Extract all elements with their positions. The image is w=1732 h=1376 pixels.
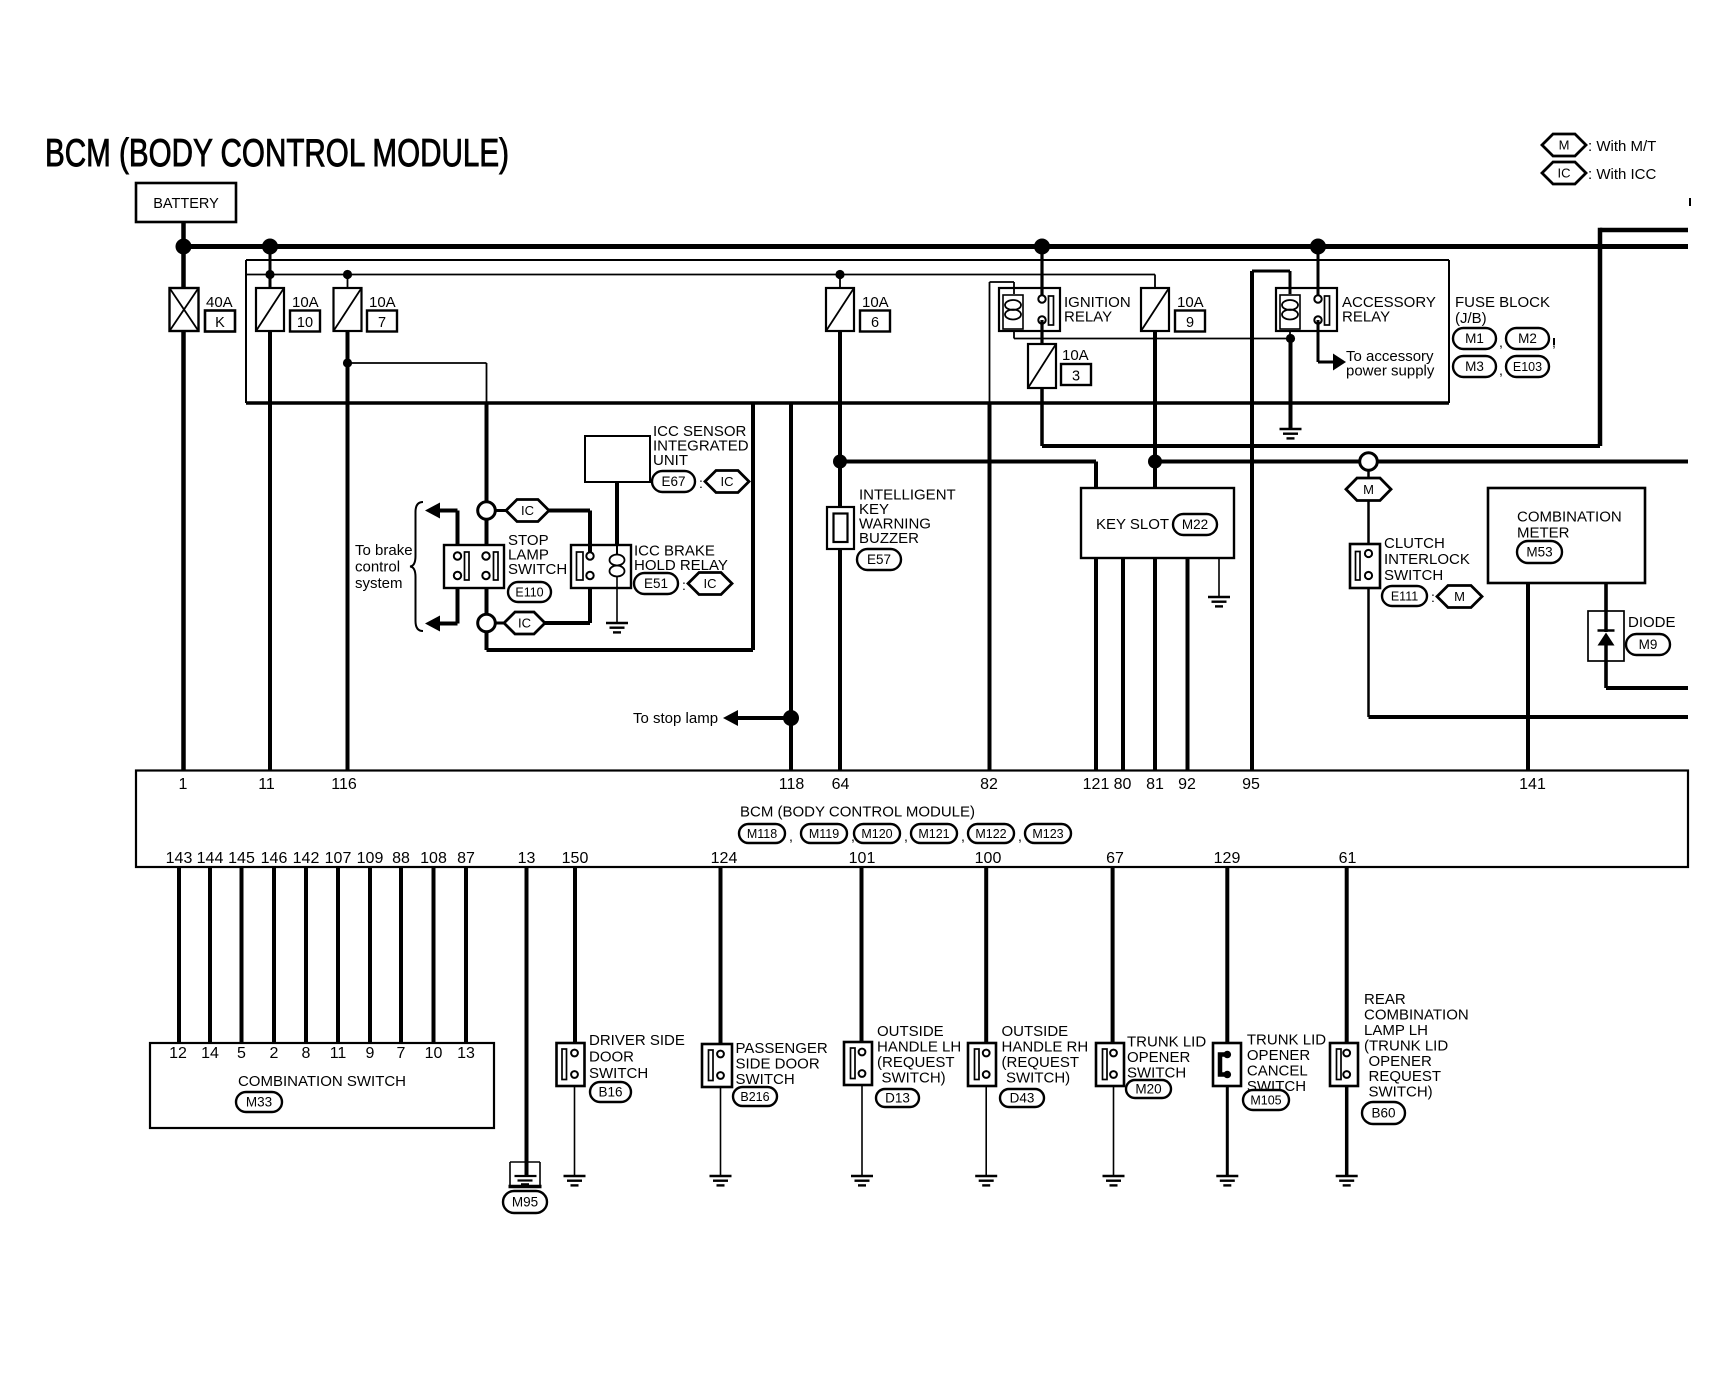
wire ignition relay to fuse 3 bbox=[1040, 320, 1043, 344]
M95 ground box bbox=[509, 1162, 542, 1187]
hexagon M clutch bbox=[1346, 478, 1391, 501]
label outside handle RH bbox=[1002, 1023, 1089, 1087]
wire 150 to door switch bbox=[573, 867, 577, 1043]
svg-text:(REQUEST: (REQUEST bbox=[877, 1054, 955, 1071]
wire 100 to handle RH bbox=[984, 867, 988, 1043]
svg-text:D13: D13 bbox=[885, 1091, 910, 1106]
connector E67 bbox=[652, 471, 695, 492]
wire M hex to clutch switch bbox=[1367, 501, 1370, 545]
svg-text:10A: 10A bbox=[292, 294, 319, 311]
fuse block J/B box bbox=[246, 260, 1449, 403]
svg-text:M1: M1 bbox=[1465, 331, 1484, 346]
svg-text:M9: M9 bbox=[1639, 637, 1658, 652]
svg-text:,: , bbox=[1552, 334, 1556, 350]
svg-text:40A: 40A bbox=[206, 294, 233, 311]
wire brake arrow upper bbox=[439, 511, 458, 546]
svg-text:1: 1 bbox=[179, 776, 188, 793]
node accessory-relay junction bbox=[1310, 239, 1326, 255]
svg-text:M: M bbox=[1559, 138, 1570, 153]
arrow to brake control upper bbox=[425, 503, 440, 519]
svg-text:M122: M122 bbox=[975, 827, 1006, 841]
node buzzer branch bbox=[833, 455, 847, 469]
svg-text:8: 8 bbox=[302, 1045, 311, 1062]
wire fusible link to BCM pin 1 bbox=[181, 331, 186, 770]
svg-text:BCM (BODY CONTROL MODULE): BCM (BODY CONTROL MODULE) bbox=[740, 804, 975, 821]
node open circle upper IC bbox=[478, 502, 496, 520]
svg-text:SWITCH: SWITCH bbox=[1384, 567, 1443, 584]
label 10A fuse3 bbox=[1062, 347, 1089, 364]
svg-text:141: 141 bbox=[1519, 776, 1546, 793]
legend text with ICC bbox=[1588, 166, 1657, 183]
wire circle to switch bbox=[485, 519, 489, 545]
svg-text:HANDLE RH: HANDLE RH bbox=[1002, 1039, 1089, 1056]
clutch switch bar bbox=[1356, 552, 1361, 581]
svg-text:TRUNK LID: TRUNK LID bbox=[1247, 1032, 1326, 1049]
node inner bus fuse7 bbox=[343, 270, 352, 279]
label 6 box bbox=[860, 311, 890, 332]
wire fuse 3 down bbox=[1040, 388, 1044, 446]
svg-text:IC: IC bbox=[721, 474, 734, 489]
svg-text:OUTSIDE: OUTSIDE bbox=[877, 1023, 944, 1040]
wire to stop lamp arrow bbox=[736, 716, 791, 720]
svg-text:SWITCH): SWITCH) bbox=[1369, 1084, 1433, 1101]
wire diode down bbox=[1604, 661, 1608, 688]
hexagon IC e67 bbox=[705, 471, 749, 493]
svg-text:61: 61 bbox=[1339, 850, 1357, 867]
svg-text::: : bbox=[699, 475, 703, 491]
connector M121 bbox=[911, 824, 957, 843]
key slot M22 box bbox=[1081, 488, 1234, 558]
wire fuse 6 to buzzer bbox=[838, 331, 842, 507]
svg-text:88: 88 bbox=[392, 850, 410, 867]
accessory relay coil box bbox=[1280, 295, 1300, 329]
legend hexagon IC (with ICC) bbox=[1542, 162, 1586, 184]
wire key slot ground bbox=[1218, 558, 1220, 597]
wire meter to diode bbox=[1604, 583, 1608, 611]
connector M122 bbox=[968, 824, 1014, 843]
svg-text:E51: E51 bbox=[644, 576, 668, 591]
svg-text:HANDLE LH: HANDLE LH bbox=[877, 1039, 961, 1056]
passenger side door switch B216 bbox=[702, 1044, 732, 1087]
wire bus to ignition relay contact bbox=[1040, 247, 1043, 300]
label combination switch bbox=[238, 1073, 406, 1090]
svg-text:RELAY: RELAY bbox=[1342, 309, 1390, 326]
ignition relay U1 box bbox=[999, 288, 1060, 331]
ground D13 bbox=[851, 1176, 873, 1185]
label K box bbox=[205, 311, 235, 332]
label ignition relay bbox=[1064, 294, 1131, 326]
svg-text:,: , bbox=[1018, 828, 1022, 844]
wire circle to M hex bbox=[1367, 470, 1370, 478]
label accessory relay bbox=[1342, 294, 1436, 326]
wire key slot pin 121 bbox=[1094, 558, 1098, 770]
label 9 box bbox=[1175, 311, 1205, 332]
svg-text:,: , bbox=[789, 828, 793, 844]
comma m119 bbox=[851, 828, 855, 844]
svg-text::: : bbox=[1431, 589, 1435, 605]
svg-text:M3: M3 bbox=[1465, 359, 1484, 374]
connector M95 bbox=[503, 1191, 547, 1213]
label 7 box bbox=[367, 311, 397, 332]
wire 95 riser corner bbox=[1252, 271, 1290, 294]
wire D43 ground bbox=[985, 1086, 987, 1176]
wire 95 vertical bbox=[1250, 271, 1254, 770]
svg-text:D43: D43 bbox=[1010, 1091, 1035, 1106]
svg-text:power supply: power supply bbox=[1346, 363, 1435, 380]
svg-text:10: 10 bbox=[297, 315, 313, 331]
wire stop lamp loop bottom bbox=[487, 631, 754, 650]
wire coil ground line bbox=[1014, 338, 1291, 340]
svg-text:6: 6 bbox=[871, 315, 879, 331]
svg-text:CLUTCH: CLUTCH bbox=[1384, 535, 1445, 552]
svg-text:IC: IC bbox=[704, 576, 717, 591]
svg-text:108: 108 bbox=[420, 850, 447, 867]
svg-text:B60: B60 bbox=[1371, 1106, 1395, 1121]
wire accessory contact out bbox=[1318, 320, 1333, 362]
svg-text:DRIVER SIDE: DRIVER SIDE bbox=[589, 1032, 685, 1049]
wire branch to stop lamp switch bbox=[348, 363, 487, 403]
M95 ground bars bbox=[515, 1176, 537, 1184]
node stop lamp junction bbox=[783, 710, 799, 726]
svg-text:150: 150 bbox=[562, 850, 589, 867]
svg-text:M: M bbox=[1363, 482, 1374, 497]
label key slot bbox=[1096, 516, 1169, 533]
label to accessory power supply bbox=[1346, 348, 1435, 380]
wire icc sensor to relay coil bbox=[615, 482, 619, 545]
svg-text:M20: M20 bbox=[1135, 1082, 1161, 1097]
svg-text:M120: M120 bbox=[861, 827, 892, 841]
svg-text:K: K bbox=[215, 315, 225, 331]
ground M105 bbox=[1216, 1176, 1238, 1185]
wire IC hex to brake relay pin bbox=[549, 511, 590, 557]
wire key slot pin 81 bbox=[1153, 558, 1157, 770]
svg-text:13: 13 bbox=[518, 850, 536, 867]
stop lamp switch bars bbox=[465, 552, 499, 580]
legend hexagon M (with M/T) bbox=[1542, 134, 1586, 156]
title text bbox=[45, 132, 509, 175]
label stop lamp switch bbox=[508, 532, 567, 578]
wire key slot feed left bbox=[840, 462, 1096, 489]
svg-text:SWITCH: SWITCH bbox=[508, 561, 567, 578]
wire 129 to trunk cancel bbox=[1225, 867, 1229, 1043]
wire fuse 7 to BCM pin 116 bbox=[346, 331, 350, 770]
ground B216 bbox=[710, 1176, 732, 1185]
wire 67 to trunk opener bbox=[1111, 867, 1115, 1043]
svg-text:system: system bbox=[355, 575, 403, 592]
svg-text:87: 87 bbox=[457, 850, 475, 867]
connector M3 bbox=[1453, 356, 1496, 377]
outside handle LH switch D13 bbox=[844, 1042, 872, 1085]
accessory relay contact pins bbox=[1314, 295, 1321, 323]
svg-text:E110: E110 bbox=[515, 586, 543, 600]
wire B216 ground bbox=[720, 1087, 722, 1176]
wire clutch to right edge bbox=[1369, 715, 1689, 719]
wire inner bus corner to fuse 9 bbox=[1154, 275, 1156, 289]
wire B16 ground bbox=[574, 1086, 576, 1176]
svg-text:,: , bbox=[961, 828, 965, 844]
stop lamp switch pins bbox=[454, 552, 490, 579]
label clutch interlock switch bbox=[1384, 535, 1470, 584]
wire ignition coil to ground line bbox=[1013, 331, 1015, 339]
svg-text:10A: 10A bbox=[1177, 294, 1204, 311]
svg-text:145: 145 bbox=[228, 850, 255, 867]
svg-text:M: M bbox=[1454, 589, 1465, 604]
svg-text:M121: M121 bbox=[918, 827, 949, 841]
label BCM module bbox=[740, 804, 975, 821]
wire bus to fuse 10 bbox=[269, 247, 272, 289]
svg-text:10A: 10A bbox=[369, 294, 396, 311]
wire fuse 3 to riser bbox=[1042, 444, 1600, 448]
svg-text:SWITCH): SWITCH) bbox=[882, 1070, 946, 1087]
svg-text:OPENER: OPENER bbox=[1247, 1047, 1311, 1064]
fuse 10A 6 bbox=[826, 288, 854, 331]
svg-text:IC: IC bbox=[521, 503, 534, 518]
svg-text:M2: M2 bbox=[1518, 331, 1537, 346]
svg-text:INTERLOCK: INTERLOCK bbox=[1384, 551, 1470, 568]
hexagon M e111 bbox=[1437, 586, 1482, 608]
ignition relay coil turns bbox=[1005, 300, 1021, 320]
clutch interlock switch E111 box bbox=[1350, 544, 1380, 588]
diode M9 box bbox=[1588, 611, 1624, 661]
wire coil junction to ground bbox=[1289, 339, 1293, 430]
wire key slot pin 80 bbox=[1121, 558, 1125, 770]
icc relay coil bbox=[610, 545, 625, 588]
wire diode to right edge bbox=[1606, 686, 1688, 690]
connector M123 bbox=[1025, 824, 1071, 843]
wire battery to bus bbox=[181, 222, 186, 247]
svg-text:101: 101 bbox=[849, 850, 876, 867]
svg-text:109: 109 bbox=[357, 850, 384, 867]
arrow to stop lamp bbox=[723, 710, 738, 726]
accessory relay contact bar bbox=[1325, 296, 1330, 325]
ground M20 bbox=[1103, 1176, 1125, 1185]
comma m122 bbox=[1018, 828, 1022, 844]
colon e111 bbox=[1431, 589, 1435, 605]
svg-text:142: 142 bbox=[293, 850, 320, 867]
svg-text:B16: B16 bbox=[598, 1085, 622, 1100]
svg-text:82: 82 bbox=[980, 776, 998, 793]
wire continuation top right bbox=[1600, 228, 1688, 233]
connector E110 bbox=[508, 582, 551, 602]
connector M105 bbox=[1243, 1090, 1289, 1110]
label 3 box bbox=[1061, 364, 1091, 385]
colon e51 bbox=[682, 577, 686, 593]
icc relay bar bbox=[577, 552, 584, 580]
svg-text:67: 67 bbox=[1106, 850, 1124, 867]
wire inner bus to fuse 7 bbox=[347, 275, 349, 289]
wire icc relay coil ground bbox=[616, 588, 618, 623]
svg-text:,: , bbox=[1499, 362, 1503, 378]
fuse 10A 7 bbox=[334, 288, 362, 331]
svg-text:CANCEL: CANCEL bbox=[1247, 1063, 1308, 1080]
hexagon IC e51 bbox=[688, 573, 732, 595]
svg-text:OPENER: OPENER bbox=[1127, 1049, 1191, 1066]
page continuation tick mid right bbox=[1553, 338, 1555, 345]
fuse block bottom bus bbox=[246, 401, 1449, 405]
svg-text:146: 146 bbox=[261, 850, 288, 867]
node ignition-relay junction bbox=[1034, 239, 1050, 255]
svg-text:10A: 10A bbox=[1062, 347, 1089, 364]
wire 101 to handle LH bbox=[860, 867, 864, 1042]
icc relay pins bbox=[586, 552, 593, 579]
outside handle RH switch D43 bbox=[968, 1043, 996, 1086]
label outside handle LH bbox=[877, 1023, 961, 1087]
svg-text:RELAY: RELAY bbox=[1064, 309, 1112, 326]
svg-text:121: 121 bbox=[1083, 776, 1110, 793]
wire bus to fusible link bbox=[181, 247, 186, 289]
wire 124 to passenger switch bbox=[719, 867, 723, 1044]
connector E111 bbox=[1382, 586, 1427, 606]
fuse 10A 10 bbox=[256, 288, 284, 331]
ground accessory relay bbox=[1280, 429, 1302, 438]
BCM top pin numbers bbox=[179, 776, 1546, 793]
svg-text:KEY SLOT: KEY SLOT bbox=[1096, 516, 1169, 533]
BCM module box bbox=[136, 771, 1688, 868]
combination switch M33 box bbox=[150, 1043, 494, 1128]
svg-text:control: control bbox=[355, 559, 400, 576]
svg-text:143: 143 bbox=[166, 850, 193, 867]
svg-text:3: 3 bbox=[1072, 369, 1080, 385]
svg-text:100: 100 bbox=[975, 850, 1002, 867]
wire meter to BCM pin 141 bbox=[1526, 583, 1530, 770]
svg-text:,: , bbox=[1499, 334, 1503, 350]
node open circle lower IC bbox=[478, 614, 496, 632]
svg-text:80: 80 bbox=[1114, 776, 1132, 793]
wire M105 ground bbox=[1226, 1086, 1229, 1176]
connector D13 bbox=[876, 1089, 919, 1107]
fuse 10A 9 bbox=[1141, 288, 1169, 331]
wire inner bus to fuse 6 bbox=[839, 275, 841, 289]
connector M53 bbox=[1517, 541, 1562, 563]
wire M20 ground bbox=[1113, 1086, 1115, 1176]
fuse 10A 3 bbox=[1028, 344, 1056, 388]
svg-text:11: 11 bbox=[258, 776, 275, 793]
svg-text:COMBINATION: COMBINATION bbox=[1517, 509, 1622, 526]
comma m121 bbox=[961, 828, 965, 844]
svg-text:10: 10 bbox=[425, 1045, 443, 1062]
ground B16 bbox=[564, 1176, 586, 1185]
node key slot branch bbox=[1148, 455, 1162, 469]
svg-text:11: 11 bbox=[330, 1045, 347, 1062]
svg-text:To stop lamp: To stop lamp bbox=[633, 710, 718, 727]
icc brake hold relay E51 box bbox=[571, 545, 631, 588]
label combination meter bbox=[1517, 509, 1622, 542]
BCM bottom pin numbers bbox=[166, 850, 1357, 867]
label 10A fuse6 bbox=[862, 294, 889, 311]
comma m3 bbox=[1499, 362, 1503, 378]
svg-text:DOOR: DOOR bbox=[589, 1049, 634, 1066]
hexagon IC upper bbox=[506, 500, 549, 522]
wires BCM to combination switch bbox=[179, 867, 466, 1043]
label driver side door switch bbox=[589, 1032, 685, 1082]
accessory relay box bbox=[1276, 288, 1337, 331]
wire brake arrow lower bbox=[439, 588, 458, 624]
svg-text:SIDE DOOR: SIDE DOOR bbox=[736, 1056, 820, 1073]
connector M20 bbox=[1126, 1080, 1171, 1098]
svg-text:: With M/T: : With M/T bbox=[1588, 138, 1656, 155]
wire key slot right bus bbox=[1155, 460, 1688, 464]
svg-text:92: 92 bbox=[1178, 776, 1196, 793]
svg-text:124: 124 bbox=[711, 850, 738, 867]
label passenger side door switch bbox=[736, 1040, 828, 1088]
ground key slot bbox=[1208, 597, 1230, 606]
wire switch to lower circle bbox=[485, 588, 489, 615]
wire buzzer to BCM pin 64 bbox=[838, 549, 842, 770]
label to brake control system bbox=[355, 542, 413, 592]
svg-text:BUZZER: BUZZER bbox=[859, 530, 919, 547]
svg-text::: : bbox=[682, 577, 686, 593]
fusible link 40A K bbox=[170, 288, 199, 331]
label icc brake hold relay bbox=[634, 543, 728, 575]
svg-text:M123: M123 bbox=[1032, 827, 1063, 841]
driver side door switch B16 bbox=[557, 1043, 585, 1086]
battery box bbox=[136, 183, 236, 222]
trunk lid opener switch M20 bbox=[1096, 1043, 1124, 1086]
label 10A fuse9 bbox=[1177, 294, 1204, 311]
svg-text:(REQUEST: (REQUEST bbox=[1002, 1054, 1080, 1071]
label icc sensor bbox=[653, 423, 749, 469]
node inner bus fuse6 bbox=[835, 270, 844, 279]
connector E51 bbox=[634, 573, 678, 594]
svg-text:PASSENGER: PASSENGER bbox=[736, 1040, 828, 1057]
icc sensor integrated unit box bbox=[585, 436, 650, 482]
stop lamp switch E110 box bbox=[444, 545, 504, 588]
svg-text:UNIT: UNIT bbox=[653, 452, 688, 469]
label rear combination lamp bbox=[1364, 991, 1469, 1100]
svg-text:M119: M119 bbox=[809, 827, 839, 841]
svg-text:SWITCH: SWITCH bbox=[736, 1071, 795, 1088]
svg-text:E67: E67 bbox=[661, 474, 685, 489]
wire accessory coil to ground node bbox=[1289, 331, 1291, 339]
label trunk lid opener switch bbox=[1127, 1034, 1206, 1082]
svg-text:M95: M95 bbox=[512, 1195, 538, 1210]
connector M22 bbox=[1173, 514, 1217, 535]
accessory relay coil turns bbox=[1282, 300, 1298, 320]
clutch switch pins bbox=[1365, 550, 1372, 579]
svg-text:14: 14 bbox=[201, 1045, 219, 1062]
svg-text:DIODE: DIODE bbox=[1628, 614, 1676, 631]
wire D13 ground bbox=[861, 1085, 863, 1176]
svg-text:TRUNK LID: TRUNK LID bbox=[1127, 1034, 1206, 1051]
node inner bus fuse10 bbox=[265, 270, 274, 279]
svg-text:OUTSIDE: OUTSIDE bbox=[1002, 1023, 1069, 1040]
svg-text:METER: METER bbox=[1517, 525, 1570, 542]
stub to IC hex lower bbox=[495, 622, 504, 625]
svg-text:COMBINATION SWITCH: COMBINATION SWITCH bbox=[238, 1073, 406, 1090]
wire clutch switch down bbox=[1367, 588, 1370, 717]
diode symbol bbox=[1598, 611, 1615, 661]
svg-text:9: 9 bbox=[366, 1045, 375, 1062]
wire IC hex lower to relay bbox=[545, 588, 590, 623]
connector B16 bbox=[590, 1082, 631, 1102]
label to stop lamp bbox=[633, 710, 718, 727]
wire bus to accessory contact bbox=[1317, 247, 1320, 297]
wire 13 to M95 bbox=[525, 867, 529, 1177]
legend text with M/T bbox=[1588, 138, 1656, 155]
comma m118 bbox=[789, 828, 793, 844]
svg-text:B216: B216 bbox=[740, 1090, 769, 1104]
connector D43 bbox=[1000, 1089, 1044, 1107]
connector M118 bbox=[739, 824, 785, 843]
rear combination lamp switch B60 bbox=[1330, 1043, 1358, 1086]
svg-text:BATTERY: BATTERY bbox=[153, 196, 219, 212]
brace to brake control system bbox=[410, 502, 423, 631]
svg-text:M118: M118 bbox=[747, 827, 777, 841]
label intelligent key warning buzzer bbox=[859, 487, 956, 548]
svg-text:118: 118 bbox=[779, 776, 805, 793]
svg-text:(J/B): (J/B) bbox=[1455, 310, 1487, 327]
comma m2 bbox=[1552, 334, 1556, 350]
